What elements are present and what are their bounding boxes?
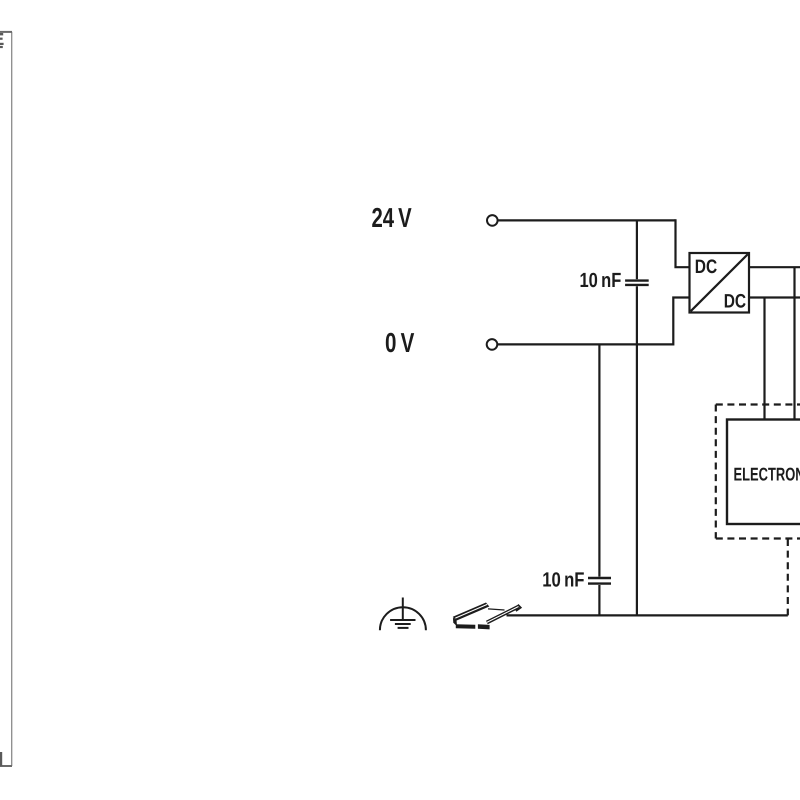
wire DC/DC output plus bbox=[749, 266, 800, 268]
electronic block bbox=[727, 420, 800, 525]
svg-text:10 nF: 10 nF bbox=[542, 568, 584, 591]
electronics dashed enclosure bbox=[716, 405, 800, 539]
svg-text:DC: DC bbox=[695, 256, 717, 278]
frame bbox=[0, 32, 12, 766]
terminal 0V bbox=[487, 339, 498, 350]
DIN rail mounting icon bbox=[453, 603, 520, 630]
svg-text:10 nF: 10 nF bbox=[580, 269, 622, 292]
wire capacitor C1 top lead bbox=[636, 220, 638, 279]
capacitor C2 10nF bbox=[588, 578, 611, 584]
svg-text:ELECTRONIC: ELECTRONIC bbox=[734, 463, 800, 484]
wire 24V to DC/DC input top bbox=[676, 219, 690, 267]
svg-text:DC: DC bbox=[724, 291, 746, 313]
wire 0V horizontal bbox=[498, 343, 674, 345]
ground functional earth symbol bbox=[380, 598, 426, 631]
wire capacitor C2 top lead bbox=[598, 344, 600, 576]
terminal 24V bbox=[487, 215, 498, 226]
wire 24V horizontal bbox=[498, 219, 676, 221]
wire DC/DC output minus bbox=[749, 296, 800, 298]
capacitor C1 10nF bbox=[625, 281, 649, 285]
svg-text:0 V: 0 V bbox=[385, 327, 415, 358]
svg-text:24 V: 24 V bbox=[372, 202, 413, 233]
wire dashed earth connection bbox=[787, 539, 789, 615]
dc-dc converter U1 bbox=[690, 253, 750, 313]
wire capacitor C2 bottom lead bbox=[598, 585, 600, 615]
wire branch output plus to electronic bbox=[793, 267, 795, 419]
wire 0V to DC/DC input bottom bbox=[673, 298, 689, 346]
wire branch output minus to electronic bbox=[763, 298, 765, 420]
wire capacitor C1 bottom lead to earth rail bbox=[636, 286, 638, 615]
wire functional earth rail bbox=[507, 614, 788, 616]
